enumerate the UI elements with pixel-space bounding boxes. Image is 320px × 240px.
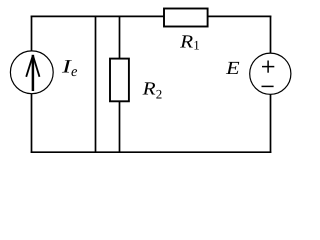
- svg-text:2: 2: [156, 86, 163, 101]
- wire middle branch: [95, 16, 97, 153]
- svg-text:E: E: [225, 59, 240, 79]
- resistor R1: [164, 9, 208, 27]
- wire top-left segment: [31, 15, 165, 17]
- svg-text:R: R: [179, 32, 193, 52]
- wire left upper lead: [31, 16, 33, 52]
- wire right upper lead: [270, 16, 272, 54]
- voltage source E: [250, 53, 291, 94]
- label R_2: [142, 80, 163, 102]
- current source I_e: [10, 51, 53, 94]
- wire bottom: [31, 151, 272, 153]
- svg-text:e: e: [71, 64, 78, 80]
- svg-text:R: R: [142, 80, 156, 100]
- wire right lower lead: [270, 94, 272, 153]
- svg-text:1: 1: [193, 38, 200, 53]
- resistor R2: [110, 59, 129, 102]
- wire R2 bottom lead: [119, 101, 121, 153]
- label I_e: [61, 56, 78, 80]
- wire left lower lead: [31, 94, 33, 154]
- label R_1: [179, 32, 200, 52]
- wire top-right segment: [208, 15, 272, 17]
- wire R2 top lead: [119, 16, 121, 59]
